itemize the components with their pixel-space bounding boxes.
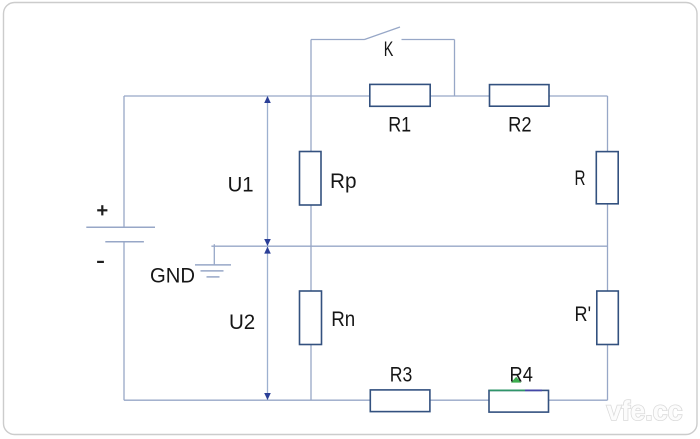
svg-text:vfe.cc: vfe.cc xyxy=(607,395,683,426)
svg-text:U1: U1 xyxy=(228,174,254,197)
svg-text:R': R' xyxy=(575,303,592,326)
svg-text:R2: R2 xyxy=(508,114,532,137)
svg-text:GND: GND xyxy=(150,265,195,288)
svg-text:R3: R3 xyxy=(390,364,413,387)
svg-text:Rn: Rn xyxy=(331,308,355,331)
svg-text:Rp: Rp xyxy=(330,170,357,193)
svg-text:R1: R1 xyxy=(388,114,411,137)
svg-text:U2: U2 xyxy=(229,311,255,334)
svg-text:K: K xyxy=(384,38,394,61)
svg-text:R: R xyxy=(575,167,586,190)
svg-text:R4: R4 xyxy=(510,364,534,387)
